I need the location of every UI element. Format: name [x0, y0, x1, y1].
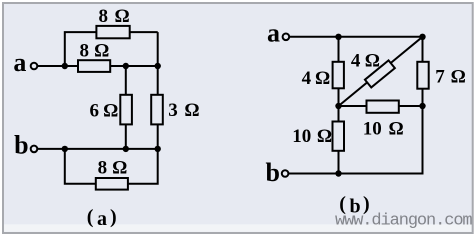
svg-text:4 Ω: 4 Ω — [302, 68, 331, 89]
svg-text:10 Ω: 10 Ω — [292, 126, 332, 147]
svg-text:4 Ω: 4 Ω — [351, 50, 380, 71]
svg-text:b: b — [266, 158, 280, 187]
svg-text:8 Ω: 8 Ω — [80, 40, 110, 61]
svg-text:8 Ω: 8 Ω — [98, 158, 128, 179]
svg-text:a: a — [97, 208, 107, 230]
svg-text:b: b — [14, 131, 28, 160]
svg-text:): ) — [110, 206, 117, 228]
svg-text:3 Ω: 3 Ω — [168, 100, 199, 121]
svg-text:8 Ω: 8 Ω — [99, 6, 130, 27]
svg-text:10 Ω: 10 Ω — [363, 118, 404, 139]
svg-text:a: a — [13, 48, 26, 77]
svg-text:(: ( — [87, 206, 94, 228]
svg-text:a: a — [267, 18, 280, 47]
svg-text:7 Ω: 7 Ω — [435, 67, 466, 88]
svg-text:www.diangon.com: www.diangon.com — [335, 212, 472, 231]
svg-text:6 Ω: 6 Ω — [90, 100, 119, 121]
